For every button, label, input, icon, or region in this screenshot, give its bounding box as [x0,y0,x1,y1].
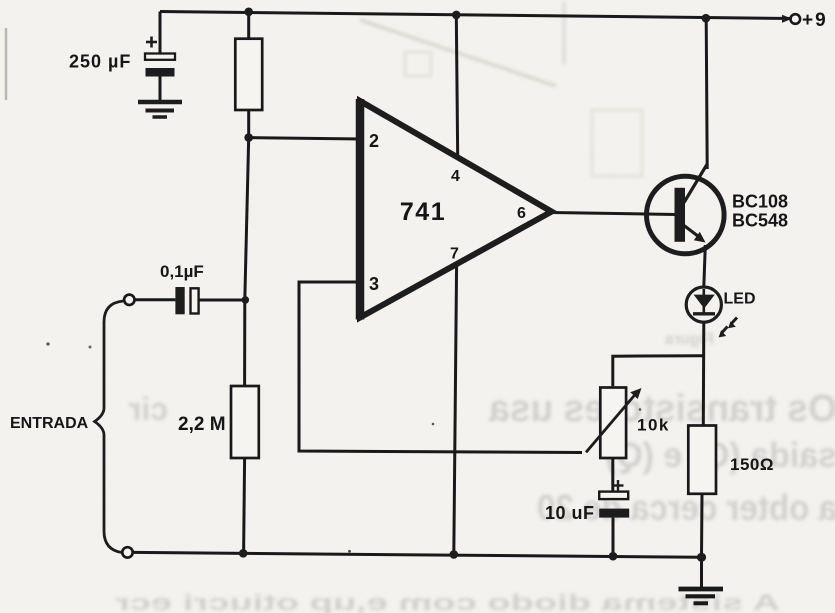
svg-text:2: 2 [369,131,379,151]
svg-text:0,1µF: 0,1µF [160,262,204,281]
svg-text:Figura: Figura [665,331,714,348]
svg-text:250 µF: 250 µF [69,52,131,72]
svg-text:BC548: BC548 [732,211,788,231]
svg-text:4: 4 [451,168,460,185]
svg-text:6: 6 [517,205,526,222]
svg-text:2,2 M: 2,2 M [178,414,226,435]
svg-text:741: 741 [400,198,446,226]
svg-text:+9: +9 [802,10,828,31]
svg-text:BC108: BC108 [732,192,788,212]
svg-text:ENTRADA: ENTRADA [10,415,89,432]
svg-text:A sistema diodo com e,up: A sistema diodo com e,up otiucri ecr [114,590,780,613]
svg-text:150Ω: 150Ω [730,455,774,474]
svg-text:10k: 10k [637,416,670,435]
svg-text:cir: cir [129,391,168,427]
svg-text:3: 3 [369,274,379,294]
svg-text:10 uF: 10 uF [545,503,595,523]
svg-text:saida (Q) e (Q): saida (Q) e (Q) [605,436,835,475]
svg-text:LED: LED [724,291,756,308]
svg-text:7: 7 [450,246,459,263]
